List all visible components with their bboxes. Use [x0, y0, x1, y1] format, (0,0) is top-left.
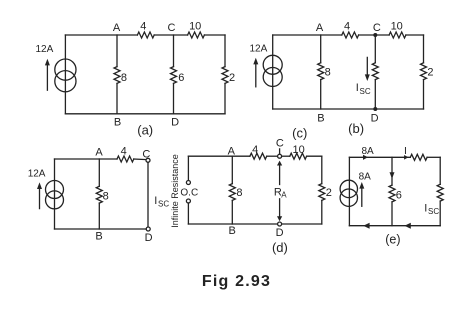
current source 12A (c): two overlapping circles	[46, 181, 64, 209]
resistor 4-ohm (b) between A and C	[342, 32, 359, 38]
wire: (e) bottom wire	[349, 225, 440, 227]
wire: (c) bottom wire	[55, 228, 147, 230]
wire: (d) left branch lower from O.C terminal	[187, 203, 189, 224]
wire: (b) branch C-D upper	[374, 35, 376, 63]
arrow: 12A current direction (a), up	[45, 59, 50, 90]
svg-text:SC: SC	[158, 199, 169, 208]
arrow: I current direction small arrowhead (e)	[404, 155, 408, 160]
svg-text:B: B	[114, 117, 121, 129]
junction dot at node D (b)	[373, 107, 377, 111]
resistor (e) on top wire right segment	[410, 154, 427, 160]
wire: (a) left branch vertical	[64, 35, 66, 114]
resistor 4-ohm (a) on top wire between A and C	[137, 32, 154, 38]
resistor 2-ohm (a) right branch	[222, 67, 228, 84]
junction dot at node C (b)	[373, 33, 377, 37]
svg-text:C: C	[373, 22, 381, 34]
wire: (a) right branch lower	[224, 83, 226, 113]
svg-text:D: D	[276, 227, 284, 239]
wire: (c) branch A-B upper	[98, 159, 100, 186]
svg-text:B: B	[229, 225, 236, 237]
svg-text:(e): (e)	[385, 233, 400, 247]
wire: (c) top wire segment right to terminal C	[134, 158, 147, 161]
arrow: 8A source current direction (e), up	[359, 182, 364, 206]
resistor (e) right branch	[437, 184, 443, 201]
resistor 4-ohm (c) between A and C	[117, 156, 134, 162]
wire: stub above terminal C (d)	[279, 149, 281, 154]
wire: (b) top wire segment middle	[359, 34, 390, 36]
svg-text:8: 8	[121, 72, 127, 84]
resistor 8-ohm (b) between A and B	[318, 63, 324, 80]
svg-text:C: C	[168, 22, 176, 34]
svg-text:(d): (d)	[272, 240, 288, 255]
wire: (d) top wire segment middle	[267, 155, 278, 157]
resistor 8-ohm (d) between A and B	[229, 184, 235, 201]
wire: (b) left branch vertical	[272, 35, 274, 109]
svg-text:C: C	[276, 138, 284, 150]
svg-text:12A: 12A	[250, 44, 268, 55]
resistor 8-ohm (a) between A and B	[114, 67, 120, 84]
wire: (a) top wire segment middle (C to 10-ohm)	[154, 34, 187, 36]
svg-text:I: I	[424, 203, 427, 215]
arrow: Isc direction (b), down	[365, 57, 370, 81]
resistor 10-ohm (a) on top wire right of C	[188, 32, 205, 38]
svg-text:A: A	[113, 22, 121, 34]
wire: (d) top wire segment left	[188, 155, 250, 157]
wire: (e) middle branch upper	[391, 157, 393, 185]
wire: (b) right branch upper	[423, 35, 425, 63]
svg-text:O.C: O.C	[180, 187, 198, 198]
svg-text:8: 8	[325, 67, 331, 79]
wire: (d) branch A-B upper	[231, 156, 233, 183]
wire: (d) right branch lower	[321, 200, 323, 224]
svg-text:2: 2	[427, 67, 433, 79]
wire: (d) right branch upper	[321, 156, 323, 183]
wire: (a) right branch upper	[224, 35, 226, 67]
wire: (d) branch A-B lower	[231, 200, 233, 224]
open-circuit terminal lower (d)	[186, 199, 190, 203]
svg-text:8: 8	[103, 191, 109, 203]
wire: (c) shorting wire C to D	[147, 162, 149, 227]
label Isc (b)	[356, 82, 371, 96]
arrow: 12A current direction (c), up	[37, 182, 42, 208]
wire: (b) top wire segment right	[406, 34, 424, 36]
wire: (c) branch A-B lower	[98, 203, 100, 229]
svg-text:SC: SC	[428, 207, 439, 216]
label RA (d)	[274, 186, 287, 199]
label Isc (c)	[154, 195, 169, 209]
arrow: RA measurement double-headed arrow C to D (d)	[277, 161, 282, 222]
wire: (a) top wire segment right	[204, 34, 225, 36]
svg-text:10: 10	[189, 20, 201, 32]
wire: (d) top wire segment right of C	[282, 155, 290, 157]
open terminal C (d)	[278, 154, 282, 158]
resistor 10-ohm (d) right of C	[290, 153, 307, 159]
svg-text:I: I	[154, 195, 157, 207]
wire: (d) left branch upper to O.C terminal	[187, 156, 189, 180]
resistor 2-ohm (d) right branch	[319, 184, 325, 201]
svg-text:6: 6	[396, 189, 402, 201]
svg-text:D: D	[371, 112, 379, 124]
wire: (e) right branch upper	[439, 157, 441, 184]
svg-text:2: 2	[229, 72, 235, 84]
svg-text:4: 4	[344, 20, 350, 32]
wire: (b) branch A-B lower	[320, 80, 322, 109]
wire: (a) bottom wire	[65, 113, 225, 115]
svg-text:A: A	[228, 146, 236, 158]
wire: (a) branch C-D lower	[173, 83, 175, 113]
svg-text:B: B	[95, 231, 102, 243]
wire: (a) branch C-D upper	[173, 35, 175, 67]
svg-text:A: A	[281, 190, 287, 199]
svg-text:12A: 12A	[28, 168, 46, 179]
arrow: 12A current direction (b), up	[253, 58, 258, 87]
svg-text:(a): (a)	[137, 122, 153, 137]
svg-text:6: 6	[178, 72, 184, 84]
svg-text:8: 8	[236, 187, 242, 199]
wire: (b) right branch lower	[423, 80, 425, 109]
current source 12A (b): two overlapping circles	[263, 55, 282, 86]
wire: (b) bottom wire	[273, 108, 424, 110]
wire: (a) branch A-B upper	[116, 35, 118, 67]
resistor 6-ohm (a) between C and D	[171, 67, 177, 84]
wire: (b) top wire segment left	[273, 34, 342, 36]
wire: (b) branch C-D lower	[374, 80, 376, 109]
wire: (e) top wire right segment	[427, 156, 440, 158]
open terminal C (c)	[146, 158, 150, 162]
resistor (shorting branch) between C and D (b)	[372, 63, 378, 80]
resistor 10-ohm (b) right of C	[389, 32, 406, 38]
svg-text:A: A	[95, 146, 103, 158]
svg-text:A: A	[316, 22, 324, 34]
svg-text:12A: 12A	[36, 44, 54, 55]
svg-text:(b): (b)	[348, 121, 364, 136]
svg-text:4: 4	[252, 144, 258, 156]
svg-text:8A: 8A	[361, 146, 374, 157]
wire: (b) branch A-B upper	[320, 35, 322, 63]
svg-text:4: 4	[140, 20, 146, 32]
svg-text:Infinite Resistance: Infinite Resistance	[170, 154, 180, 228]
svg-text:D: D	[145, 232, 153, 244]
wire: (c) left branch vertical	[54, 159, 56, 229]
wire: (a) top wire segment left (source to 4-ohm)	[65, 34, 137, 36]
open terminal D (d)	[278, 222, 282, 226]
wire: (e) right branch lower	[439, 201, 441, 226]
svg-text:I: I	[356, 82, 359, 94]
svg-text:10: 10	[292, 144, 304, 156]
current source 12A (a): two overlapping circles	[55, 59, 76, 92]
svg-text:4: 4	[121, 146, 127, 158]
resistor 8-ohm (c) between A and B	[96, 186, 102, 203]
wire: (c) top wire segment left	[55, 158, 118, 160]
svg-text:C: C	[142, 149, 150, 161]
wire: (e) middle branch lower	[391, 202, 393, 226]
arrow: return current left arrowhead 2 (e)	[404, 223, 410, 229]
resistor 2-ohm (b) right branch	[421, 63, 427, 80]
svg-text:D: D	[171, 117, 179, 129]
arrow: branch current direction (e), down	[390, 172, 395, 179]
wire: (a) branch A-B lower	[116, 83, 118, 113]
wire: (e) top wire left segment	[349, 156, 410, 158]
arrow: return current left arrowhead 1 (e)	[363, 223, 369, 229]
label Isc (e)	[424, 203, 439, 217]
open-circuit terminal upper (d)	[186, 181, 190, 185]
svg-text:SC: SC	[360, 87, 371, 96]
resistor 4-ohm (d) between A and C	[250, 153, 267, 159]
open terminal D (c)	[146, 227, 150, 231]
arrow: 8A current direction on (e) top wire, right	[363, 155, 368, 160]
svg-text:Fig 2.93: Fig 2.93	[202, 273, 271, 290]
wire: (e) left branch vertical	[348, 157, 350, 225]
wire: (d) bottom wire	[188, 223, 321, 225]
svg-text:10: 10	[391, 20, 403, 32]
svg-text:B: B	[317, 112, 324, 124]
svg-text:2: 2	[326, 187, 332, 199]
wire: (d) top wire segment far right	[307, 155, 322, 157]
svg-text:(c): (c)	[292, 125, 307, 140]
current source 8A (e): two overlapping circles	[340, 180, 357, 206]
svg-text:8A: 8A	[359, 172, 372, 183]
resistor 6-ohm (e) middle branch	[389, 185, 395, 202]
